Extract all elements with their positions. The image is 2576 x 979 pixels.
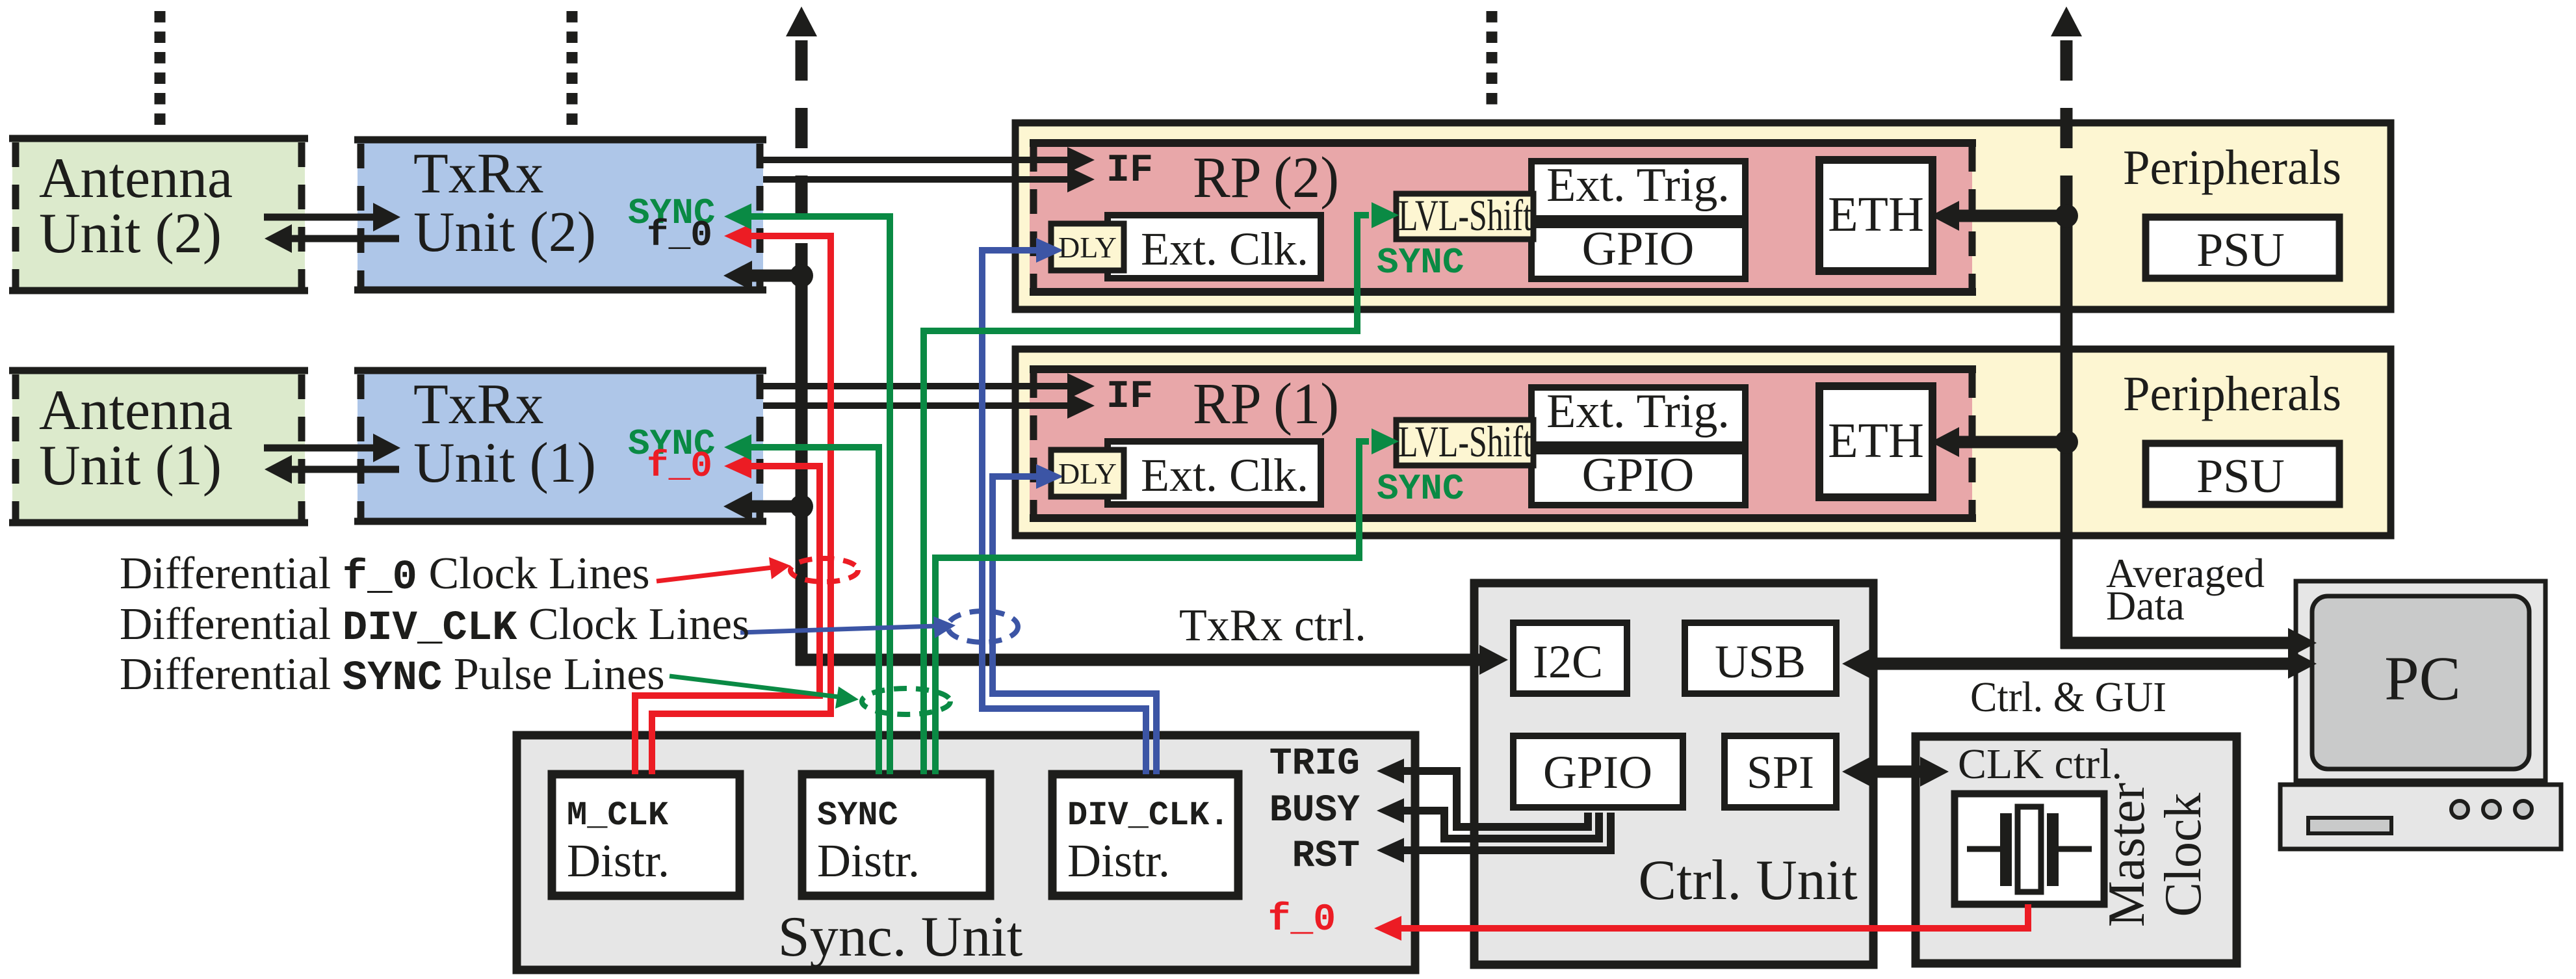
block USB [1685, 623, 1836, 694]
block GPIO Ctrl Unit [1513, 736, 1683, 807]
svg-text:RP (2): RP (2) [1193, 146, 1339, 210]
block PC monitor [2296, 581, 2545, 781]
svg-text:M_CLK: M_CLK [567, 796, 669, 835]
svg-text:RST: RST [1292, 835, 1360, 878]
svg-text:USB: USB [1715, 636, 1806, 688]
block Antenna Unit (2) [9, 135, 308, 294]
svg-text:LVL-Shift: LVL-Shift [1398, 190, 1532, 240]
block Ext. Clk. RP2 [1108, 215, 1321, 278]
svg-text:GPIO: GPIO [1582, 449, 1695, 502]
wire TxRx ctrl horizontal to I2C [796, 654, 1482, 666]
block Ext. Trig. RP2 [1531, 161, 1745, 218]
svg-text:Unit (1): Unit (1) [413, 432, 596, 495]
wire black right bus solid (Averaged Data) [2061, 216, 2073, 649]
block TxRx Unit (2) [354, 137, 766, 293]
block RP (1) assembly outer yellow box with Peripherals [1015, 349, 2391, 536]
wire arrow into ETH RP1 [1958, 436, 2066, 449]
svg-text:Antenna: Antenna [39, 147, 233, 210]
callout blue arrow Differential DIV_CLK [740, 626, 936, 633]
wire red f_0 from Master Clock crystal to Sync Unit [1401, 904, 2028, 928]
block SYNC Distr. [802, 774, 990, 896]
svg-text:Ctrl. Unit: Ctrl. Unit [1638, 849, 1857, 912]
wire averaged data horizontal into PC [2061, 637, 2291, 649]
wire IF line 1 RP2 [763, 157, 1070, 163]
block LVL-Shift RP1 [1396, 420, 1533, 465]
crystal symbol [1967, 807, 2092, 892]
block Ctrl. Unit [1474, 583, 1873, 965]
svg-text:Unit (1): Unit (1) [39, 434, 222, 497]
svg-text:Differential DIV_CLK Clock Lin: Differential DIV_CLK Clock Lines [120, 599, 749, 652]
PC buttons [2451, 801, 2468, 818]
dotted continuation line above TxRx Unit (2) [567, 11, 578, 126]
svg-text:Distr.: Distr. [567, 835, 670, 887]
block Antenna Unit (1) [9, 367, 308, 526]
junction dot ETH1 [2055, 430, 2078, 454]
junction dot ETH2 [2055, 204, 2078, 228]
block DLY RP2 [1051, 224, 1124, 270]
wire IF line 1 RP1 [763, 383, 1070, 389]
svg-text:Antenna: Antenna [39, 379, 233, 442]
block SPI [1724, 736, 1836, 807]
dotted continuation line above Antenna Unit (2) [155, 11, 166, 126]
wire TRIG from Ctrl GPIO to Sync Unit [1403, 771, 1588, 827]
block PSU (2) [2146, 217, 2339, 278]
PC base [2280, 785, 2561, 849]
wire black left bus solid [796, 276, 808, 666]
svg-text:CLK ctrl.: CLK ctrl. [1958, 740, 2122, 788]
svg-text:DIV_CLK.: DIV_CLK. [1067, 796, 1230, 835]
svg-text:Differential SYNC Pulse Lines: Differential SYNC Pulse Lines [120, 649, 665, 702]
svg-text:f_0: f_0 [647, 215, 712, 256]
block Sync. Unit [517, 735, 1415, 970]
wire txrx1 to antenna1 arrow left [288, 466, 399, 473]
callout red dashed ellipse [790, 558, 858, 582]
svg-text:GPIO: GPIO [1582, 222, 1695, 276]
callout red arrow Differential f_0 [657, 568, 772, 581]
svg-text:Ctrl. & GUI: Ctrl. & GUI [1970, 673, 2166, 721]
callout blue dashed ellipse [948, 611, 1018, 642]
svg-text:TxRx: TxRx [413, 373, 543, 436]
svg-text:I2C: I2C [1533, 636, 1603, 688]
svg-text:TxRx: TxRx [413, 142, 543, 205]
svg-text:IF: IF [1106, 375, 1153, 419]
wire antenna2 to txrx2 arrow right [264, 214, 377, 221]
block M_CLK Distr. [552, 774, 740, 896]
svg-text:f_0: f_0 [647, 445, 712, 487]
svg-text:Ext. Clk.: Ext. Clk. [1141, 223, 1308, 275]
svg-text:f_0: f_0 [1268, 899, 1336, 941]
svg-text:GPIO: GPIO [1543, 746, 1652, 798]
block DIV_CLK Distr. [1052, 774, 1238, 896]
svg-text:Sync. Unit: Sync. Unit [778, 906, 1022, 969]
block RP (1) pink inner box [1030, 365, 1976, 522]
block RP (2) pink inner box [1030, 139, 1976, 296]
callout green arrow Differential SYNC [670, 676, 839, 697]
svg-text:PSU: PSU [2196, 450, 2285, 503]
svg-text:SYNC: SYNC [817, 796, 898, 835]
svg-text:Unit (2): Unit (2) [39, 202, 222, 265]
wire green SYNC to LVL-Shift RP1 [935, 441, 1369, 774]
block I2C [1513, 623, 1627, 694]
svg-text:RP (1): RP (1) [1193, 372, 1339, 436]
wire green SYNC to TxRx Unit (1) [748, 447, 879, 774]
svg-text:Distr.: Distr. [817, 835, 920, 887]
svg-text:PC: PC [2384, 644, 2460, 713]
wire USB to PC double arrow Ctrl & GUI [1867, 658, 2293, 670]
svg-text:Data: Data [2106, 582, 2185, 629]
block GPIO RP2 [1531, 225, 1745, 279]
svg-text:Clock: Clock [2155, 792, 2212, 917]
PC slot [2308, 818, 2391, 833]
block Ext. Trig. RP1 [1531, 387, 1745, 445]
block LVL-Shift RP2 [1396, 194, 1533, 239]
block RP (2) assembly outer yellow box with Peripherals [1015, 123, 2391, 309]
wire green SYNC to LVL-Shift RP2 [924, 215, 1369, 774]
block GPIO RP1 [1531, 451, 1745, 505]
svg-text:TRIG: TRIG [1269, 743, 1360, 785]
svg-text:Distr.: Distr. [1067, 835, 1170, 887]
junction dot TxRx2 ctrl [790, 264, 813, 287]
wire green SYNC to TxRx Unit (2) [748, 216, 890, 774]
svg-text:Differential f_0 Clock Lines: Differential f_0 Clock Lines [120, 549, 650, 601]
svg-text:Ext. Clk.: Ext. Clk. [1141, 449, 1308, 501]
wire blue B DIV_CLK to DLY RP1 [993, 476, 1156, 774]
block ETH RP2 [1819, 160, 1932, 271]
svg-text:Ext. Trig.: Ext. Trig. [1546, 159, 1730, 212]
svg-text:TxRx ctrl.: TxRx ctrl. [1179, 601, 1366, 651]
block PSU (1) [2146, 443, 2339, 504]
block DLY RP1 [1051, 450, 1124, 497]
svg-text:Peripherals: Peripherals [2123, 140, 2341, 195]
wire BUSY from Ctrl GPIO to Sync Unit [1403, 811, 1599, 839]
block Ext. Clk. RP1 [1108, 441, 1321, 504]
dotted continuation line above RP (2) [1487, 11, 1498, 112]
svg-text:PSU: PSU [2196, 224, 2285, 277]
svg-text:BUSY: BUSY [1269, 790, 1360, 832]
wire antenna1 to txrx1 arrow right [264, 445, 377, 452]
svg-text:DLY: DLY [1058, 457, 1117, 490]
PC screen [2312, 596, 2529, 769]
block ETH RP1 [1819, 386, 1932, 497]
block Master Clock [1916, 737, 2237, 963]
svg-text:Peripherals: Peripherals [2123, 367, 2341, 421]
svg-text:SYNC: SYNC [1377, 468, 1464, 510]
svg-text:LVL-Shift: LVL-Shift [1398, 417, 1532, 466]
wire SPI to Master Clock double arrow [1867, 766, 1923, 778]
block crystal oscillator box [1955, 794, 2104, 904]
svg-text:SPI: SPI [1747, 746, 1814, 798]
wire RST from Ctrl GPIO to Sync Unit [1403, 813, 1611, 850]
callout green dashed ellipse [862, 688, 950, 714]
wire IF line 2 RP1 [763, 402, 1070, 409]
block TxRx Unit (1) [354, 367, 766, 525]
wire red f_0 to TxRx Unit (1) [635, 466, 820, 774]
svg-text:ETH: ETH [1828, 413, 1924, 468]
overlay LVL-Shift RP2 on top [1396, 194, 1533, 239]
wire IF line 2 RP2 [763, 176, 1070, 183]
svg-text:Unit (2): Unit (2) [413, 201, 596, 264]
svg-text:SYNC: SYNC [1377, 242, 1464, 283]
svg-text:ETH: ETH [1828, 187, 1924, 242]
svg-text:IF: IF [1106, 149, 1153, 193]
wire arrow into ETH RP2 [1958, 210, 2066, 222]
wire txrx2 to antenna2 arrow left [288, 235, 399, 242]
wire blue A DIV_CLK to DLY RP2 [982, 250, 1146, 774]
svg-text:DLY: DLY [1058, 231, 1117, 264]
wire black left bus dashed top with up arrow [786, 7, 817, 36]
wire ctrl arrow into TxRx Unit (2) [751, 270, 801, 282]
wire black right bus dashed top with up arrow [2051, 7, 2082, 36]
wire red f_0 to TxRx Unit (2) [652, 236, 831, 774]
junction dot TxRx1 ctrl [790, 495, 813, 518]
wire ctrl arrow into TxRx Unit (1) [751, 501, 801, 513]
svg-text:Master: Master [2098, 783, 2155, 927]
svg-text:Ext. Trig.: Ext. Trig. [1546, 385, 1730, 438]
